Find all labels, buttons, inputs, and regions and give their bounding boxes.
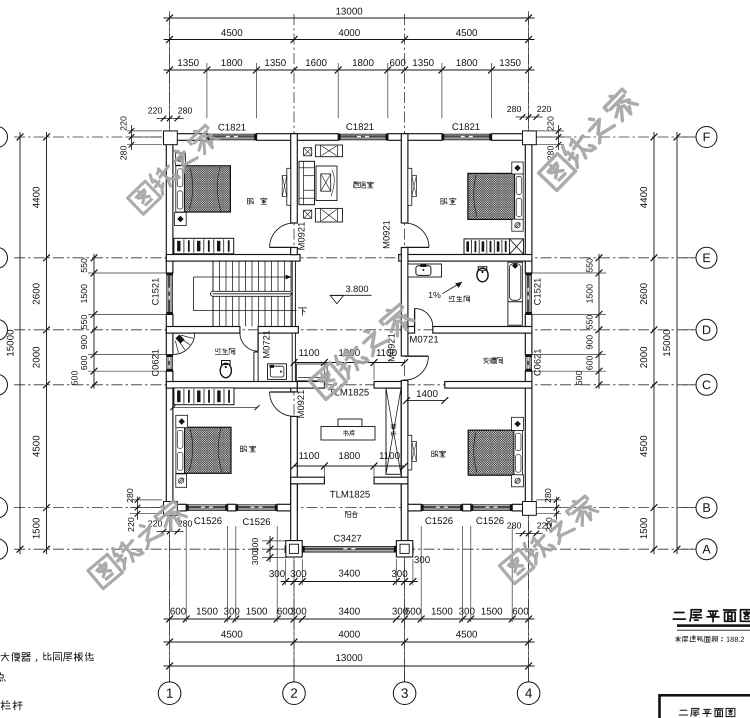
- bathtub: [508, 262, 522, 325]
- stair down label: [298, 308, 306, 315]
- svg-text:300: 300: [290, 606, 307, 617]
- svg-text:220: 220: [148, 105, 163, 115]
- wall west: [166, 134, 173, 511]
- svg-text:1500: 1500: [585, 284, 595, 304]
- svg-text:4400: 4400: [32, 186, 43, 208]
- svg-text:2600: 2600: [32, 282, 43, 304]
- svg-text:300: 300: [391, 569, 408, 580]
- note 2: [0, 673, 5, 682]
- svg-text:600: 600: [390, 58, 407, 69]
- svg-text:2000: 2000: [639, 346, 650, 368]
- svg-text:550: 550: [79, 258, 89, 273]
- balcony south wall: [285, 546, 413, 553]
- svg-text:300: 300: [459, 606, 476, 617]
- svg-text:1500: 1500: [431, 606, 453, 617]
- title block box: [660, 695, 750, 718]
- study south wall: [291, 477, 408, 484]
- svg-text:220: 220: [537, 104, 552, 114]
- svg-text:13000: 13000: [335, 653, 363, 664]
- svg-text:A: A: [702, 542, 711, 556]
- svg-text:1500: 1500: [246, 606, 268, 617]
- svg-text:C1821: C1821: [346, 122, 374, 133]
- bottom dimension chains: [164, 514, 535, 681]
- svg-text:600: 600: [512, 606, 529, 617]
- svg-text:1500: 1500: [32, 517, 43, 539]
- bed bedroom2: [468, 173, 523, 219]
- svg-text:15000: 15000: [662, 329, 673, 357]
- svg-text:550: 550: [79, 315, 89, 330]
- svg-text:C: C: [702, 378, 711, 392]
- svg-text:500: 500: [70, 371, 80, 386]
- svg-text:M0921: M0921: [296, 222, 307, 251]
- bookcase: [386, 388, 401, 474]
- watermark bottom-right: [498, 493, 599, 583]
- svg-text:300: 300: [250, 551, 260, 566]
- bed bedroom3: [176, 427, 231, 473]
- nightstand b4 top: [512, 417, 524, 430]
- wall row C: [166, 382, 532, 389]
- study desk: [321, 419, 375, 440]
- svg-text:1500: 1500: [79, 284, 89, 304]
- svg-text:220: 220: [546, 116, 556, 131]
- sofa single bottom: [315, 208, 342, 222]
- svg-text:300: 300: [290, 569, 307, 580]
- svg-text:4500: 4500: [639, 435, 650, 457]
- svg-text:1800: 1800: [352, 58, 374, 69]
- svg-text:4500: 4500: [456, 28, 478, 39]
- svg-text:4000: 4000: [338, 28, 360, 39]
- bedroom3 wardrobe line: [170, 405, 259, 410]
- svg-text:600: 600: [585, 355, 595, 370]
- sink bathroom2: [408, 264, 442, 277]
- svg-text:280: 280: [119, 146, 129, 161]
- svg-text:500: 500: [574, 371, 584, 386]
- side table bottom: [304, 210, 312, 218]
- wall north (F): [164, 134, 535, 141]
- corner dims bottom-right: [507, 488, 561, 536]
- dresser bedroom2: [464, 239, 524, 254]
- window C1521 east bath: [525, 273, 527, 314]
- window C1821 bedroom1: [207, 133, 257, 135]
- svg-text:220: 220: [119, 116, 129, 131]
- svg-text:280: 280: [507, 104, 522, 114]
- svg-text:1400: 1400: [416, 389, 438, 400]
- wall x2 thin (stair/niche): [292, 261, 295, 381]
- svg-text:280: 280: [507, 520, 522, 530]
- svg-text:550: 550: [585, 315, 595, 330]
- corridor cabinet: [297, 364, 328, 381]
- wardrobe bedroom3: [174, 388, 234, 405]
- label study: [343, 430, 355, 436]
- wall row D: [166, 327, 532, 334]
- svg-text:M0921: M0921: [295, 390, 306, 419]
- door M0921 bedroom3-study: [270, 392, 294, 416]
- watermark center: [308, 302, 415, 400]
- window C1521 west stair: [166, 273, 168, 314]
- tv bedroom4: [408, 435, 417, 470]
- window C1821 bedroom2: [442, 133, 492, 135]
- svg-text:280: 280: [125, 488, 135, 503]
- svg-text:C1526: C1526: [425, 516, 453, 527]
- wall south right (B): [401, 504, 534, 511]
- svg-text:1500: 1500: [481, 606, 503, 617]
- bed bedroom4: [468, 430, 522, 475]
- bed bedroom1: [176, 166, 231, 212]
- svg-text:1100: 1100: [298, 348, 320, 359]
- label balcony: [345, 511, 358, 517]
- wall x3: [401, 134, 408, 505]
- right dimension chains: [532, 132, 680, 554]
- corner dims top-left: [119, 105, 193, 160]
- svg-text:3.800: 3.800: [345, 284, 368, 294]
- svg-text:220: 220: [126, 517, 136, 532]
- svg-text:280: 280: [178, 105, 193, 115]
- svg-text:280: 280: [543, 488, 553, 503]
- svg-text:1800: 1800: [338, 451, 360, 462]
- svg-text:900: 900: [79, 335, 89, 350]
- svg-text:900: 900: [585, 335, 595, 350]
- svg-text:C1821: C1821: [452, 122, 480, 133]
- svg-text:M0721: M0721: [260, 330, 271, 359]
- tv bedroom2: [408, 168, 417, 205]
- grid bubbles bottom 1-4: [158, 666, 540, 705]
- corner columns 500x500: [164, 131, 537, 515]
- watermark top-right: [537, 87, 639, 191]
- nightstand b1 top: [176, 153, 186, 165]
- door M0721 bathroom2: [415, 308, 433, 326]
- sofa main: [299, 161, 315, 204]
- svg-text:3400: 3400: [338, 606, 360, 617]
- svg-text:C1821: C1821: [218, 122, 246, 133]
- corridor dims 1100/1800/1100: [291, 348, 408, 380]
- svg-text:600: 600: [405, 606, 422, 617]
- svg-text:E: E: [702, 251, 710, 265]
- top dimension chains: [164, 6, 535, 131]
- svg-text:2000: 2000: [32, 346, 43, 368]
- svg-text:D: D: [702, 323, 711, 337]
- note railing: [1, 701, 22, 710]
- note toilet: [1, 652, 93, 661]
- label bedroom3: [240, 446, 255, 452]
- svg-text:2600: 2600: [639, 282, 650, 304]
- door M0921 cloakroom: [405, 356, 429, 380]
- label living room: [353, 181, 373, 188]
- label bedroom4: [432, 451, 446, 457]
- nightstand b2 top: [512, 162, 523, 174]
- label bookcase: [391, 424, 396, 436]
- svg-text:1%: 1%: [428, 290, 441, 300]
- svg-text:4500: 4500: [32, 435, 43, 457]
- balcony 300/300 vertical dims: [250, 536, 287, 565]
- svg-text:C3427: C3427: [333, 533, 361, 544]
- svg-text:3400: 3400: [338, 568, 360, 579]
- svg-text:600: 600: [79, 355, 89, 370]
- bathroom1 partition: [254, 352, 258, 382]
- grid bubbles left (clipped): [0, 127, 8, 560]
- svg-text:1100: 1100: [298, 451, 320, 462]
- svg-text:1100: 1100: [379, 451, 401, 462]
- svg-text:M0921: M0921: [380, 220, 391, 249]
- toilet bathroom2: [477, 267, 488, 282]
- svg-text:3: 3: [401, 686, 409, 701]
- svg-text:1350: 1350: [412, 58, 434, 69]
- svg-text:1: 1: [166, 686, 174, 701]
- nightstand b1 bottom: [175, 212, 187, 225]
- window C0621 west bath: [166, 355, 168, 372]
- svg-text:C0621: C0621: [150, 349, 161, 377]
- svg-text:4: 4: [525, 686, 533, 701]
- wall x2 thick: [291, 134, 298, 505]
- nightstand b2 bottom: [512, 219, 523, 231]
- svg-text:4500: 4500: [221, 28, 243, 39]
- svg-text:1350: 1350: [499, 58, 521, 69]
- balcony side walls: [291, 484, 408, 546]
- study dims 1100/1800/1100: [291, 451, 408, 478]
- wall south left (B): [164, 504, 298, 511]
- wall row E: [166, 255, 532, 262]
- label bedroom2: [441, 198, 456, 204]
- svg-text:4500: 4500: [456, 629, 478, 640]
- nightstand b3 bottom: [176, 474, 187, 487]
- svg-text:C1521: C1521: [532, 278, 543, 306]
- svg-text:F: F: [703, 130, 711, 144]
- svg-text:1500: 1500: [639, 517, 650, 539]
- svg-text:300: 300: [224, 606, 241, 617]
- svg-text:M0721: M0721: [409, 334, 438, 345]
- label bathroom2: [449, 296, 470, 302]
- svg-text:2: 2: [290, 686, 298, 701]
- window C1526 b4-left: [421, 504, 462, 506]
- svg-text:M0921: M0921: [386, 333, 397, 362]
- svg-text:550: 550: [585, 258, 595, 273]
- svg-text:C1526: C1526: [194, 516, 222, 527]
- door M0921 bedroom1: [270, 223, 294, 247]
- label bathroom1: [215, 349, 235, 355]
- dim 1400 bedroom4 opening: [403, 389, 448, 404]
- window C1821 living room: [338, 133, 388, 135]
- side table top: [304, 148, 312, 156]
- svg-text:C1526: C1526: [242, 517, 270, 528]
- title area text: [675, 635, 745, 644]
- svg-text:188.2: 188.2: [726, 635, 745, 644]
- label bedroom1: [247, 198, 267, 204]
- svg-text:600: 600: [170, 606, 187, 617]
- svg-text:4400: 4400: [639, 186, 650, 208]
- watermark top-left: [126, 123, 219, 214]
- title underlined: [673, 610, 750, 631]
- stairs: [194, 261, 297, 326]
- window C0621 east cloak: [525, 355, 527, 372]
- toilet bathroom1: [220, 361, 231, 378]
- svg-text:1600: 1600: [305, 58, 327, 69]
- svg-text:1350: 1350: [177, 58, 199, 69]
- sofa single top: [315, 145, 342, 157]
- svg-text:300: 300: [414, 555, 431, 566]
- door M0721 bathroom1: [240, 333, 258, 351]
- door M0921 bedroom2: [405, 223, 429, 247]
- label cloakroom: [483, 358, 502, 364]
- corner dims bottom-left: [125, 488, 193, 534]
- wall east: [525, 134, 532, 511]
- window C1526 b3-right: [236, 504, 277, 506]
- svg-text:1800: 1800: [221, 58, 243, 69]
- svg-text:1800: 1800: [456, 58, 478, 69]
- washbasin bathroom1: [268, 364, 287, 380]
- svg-text:13000: 13000: [335, 6, 363, 17]
- dresser bedroom1: [174, 238, 234, 254]
- tv bedroom1: [282, 168, 290, 205]
- svg-text:B: B: [702, 501, 710, 515]
- grid bubbles right F-A: [682, 127, 717, 560]
- svg-text:C1521: C1521: [150, 278, 161, 306]
- svg-text:TLM1825: TLM1825: [330, 489, 371, 500]
- svg-text:C1526: C1526: [476, 516, 504, 527]
- corner shower: [173, 333, 195, 355]
- svg-text:1350: 1350: [264, 58, 286, 69]
- left dimension chains: [6, 132, 167, 554]
- svg-text:1500: 1500: [196, 606, 218, 617]
- window C1526 b3-left: [186, 504, 227, 506]
- slope arrow 1%: [428, 282, 462, 300]
- corner dims top-right: [507, 104, 564, 160]
- level marker 3.800: [330, 284, 372, 304]
- coffee table: [316, 166, 337, 201]
- nightstand b4 bottom: [512, 475, 524, 487]
- window C1526 b4-right: [471, 504, 512, 506]
- nightstand b3 top: [176, 415, 188, 427]
- balcony columns: [286, 541, 413, 557]
- svg-text:C0621: C0621: [532, 348, 543, 376]
- svg-text:4000: 4000: [338, 629, 360, 640]
- svg-text:4500: 4500: [221, 629, 243, 640]
- window C3427 balcony: [302, 545, 396, 547]
- svg-text:300: 300: [250, 538, 260, 553]
- watermark bottom-left: [87, 498, 188, 588]
